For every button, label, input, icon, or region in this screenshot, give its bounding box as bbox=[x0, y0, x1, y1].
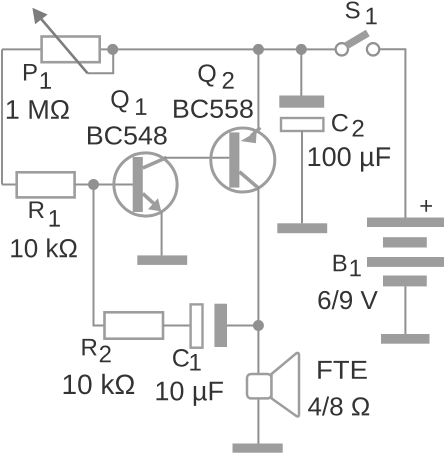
wire top-left horizontal from left edge to P1 bbox=[2, 48, 42, 50]
label 10 kΩ (R2) bbox=[64, 374, 135, 395]
battery B1 plate 1 (wide +) bbox=[367, 218, 444, 228]
label 1 MΩ bbox=[7, 100, 69, 119]
capacitor C2 plate + (filled) bbox=[279, 96, 324, 108]
wire C2 bottom lead bbox=[301, 131, 303, 223]
label 10 kΩ (R1) bbox=[11, 238, 76, 257]
label BC548 bbox=[88, 126, 167, 144]
label + (battery positive) bbox=[420, 200, 432, 212]
ground (battery) bbox=[381, 334, 430, 344]
wire left vertical rail bbox=[1, 49, 3, 184]
label R2 bbox=[82, 339, 96, 356]
potentiometer P1 body bbox=[42, 37, 100, 63]
label C1 bbox=[173, 349, 189, 367]
label 6/9 V bbox=[318, 290, 377, 309]
label R1 bbox=[30, 201, 44, 218]
label 100 µF bbox=[309, 147, 390, 171]
wire junction down to R2 bbox=[94, 185, 105, 326]
transistor Q1 (BC548 NPN) bbox=[114, 153, 177, 216]
speaker FTE body bbox=[247, 374, 272, 398]
label BC558 bbox=[174, 100, 253, 118]
switch S1 bbox=[336, 33, 380, 56]
capacitor C1 plate (outline) bbox=[191, 304, 203, 347]
node dot R1 / R2 junction bbox=[88, 179, 99, 190]
potentiometer P1 arrow bbox=[32, 8, 87, 74]
label C2 bbox=[332, 114, 348, 132]
battery B1 plate 3 (wide) bbox=[367, 257, 444, 267]
capacitor C2 plate - (outline) bbox=[281, 118, 323, 131]
resistor R2 body bbox=[105, 312, 164, 338]
node dot P1 wiper junction bbox=[107, 44, 118, 55]
wire top rail P1 to switch bbox=[100, 48, 335, 50]
wire R1 left lead bbox=[2, 184, 17, 186]
label P1 bbox=[24, 64, 37, 81]
label 4/8 Ω bbox=[308, 397, 369, 416]
wire R1 to Q1 base bbox=[75, 184, 133, 186]
node dot speaker junction bbox=[253, 320, 264, 331]
wire Q1 collector to Q2 base bbox=[164, 157, 229, 159]
ground (C2) bbox=[277, 223, 327, 233]
wire C1 to speaker node bbox=[227, 325, 258, 327]
node dot top rail / Q2 emitter bbox=[253, 44, 264, 55]
battery B1 plate 2 (narrow) bbox=[383, 237, 427, 247]
label B1 bbox=[334, 255, 347, 272]
label S1 bbox=[346, 2, 360, 19]
label Q2 bbox=[198, 64, 215, 86]
ground (speaker) bbox=[233, 444, 283, 453]
transistor Q2 (BC558 PNP) bbox=[211, 128, 275, 192]
speaker FTE horn bbox=[272, 353, 300, 417]
wire R2 to C1 bbox=[163, 325, 191, 327]
wire C2 top lead bbox=[300, 49, 302, 95]
node dot top rail / C2 bbox=[296, 44, 307, 55]
label FTE bbox=[318, 361, 367, 379]
capacitor C1 plate + (filled) bbox=[214, 304, 227, 347]
wire Q2 emitter vertical bbox=[257, 49, 259, 133]
resistor R1 body bbox=[17, 172, 75, 197]
wire switch to right rail bbox=[380, 49, 405, 217]
battery B1 plate 4 (narrow) bbox=[383, 276, 427, 287]
wire Q2 collector down to speaker node bbox=[257, 187, 259, 444]
wire Q1 emitter to ground bbox=[161, 212, 163, 255]
wire battery to ground bbox=[404, 286, 406, 334]
ground (Q1) bbox=[137, 255, 187, 265]
label 10 µF bbox=[156, 381, 222, 405]
label Q1 bbox=[111, 90, 128, 112]
potentiometer P1 wiper wire bbox=[88, 49, 114, 73]
